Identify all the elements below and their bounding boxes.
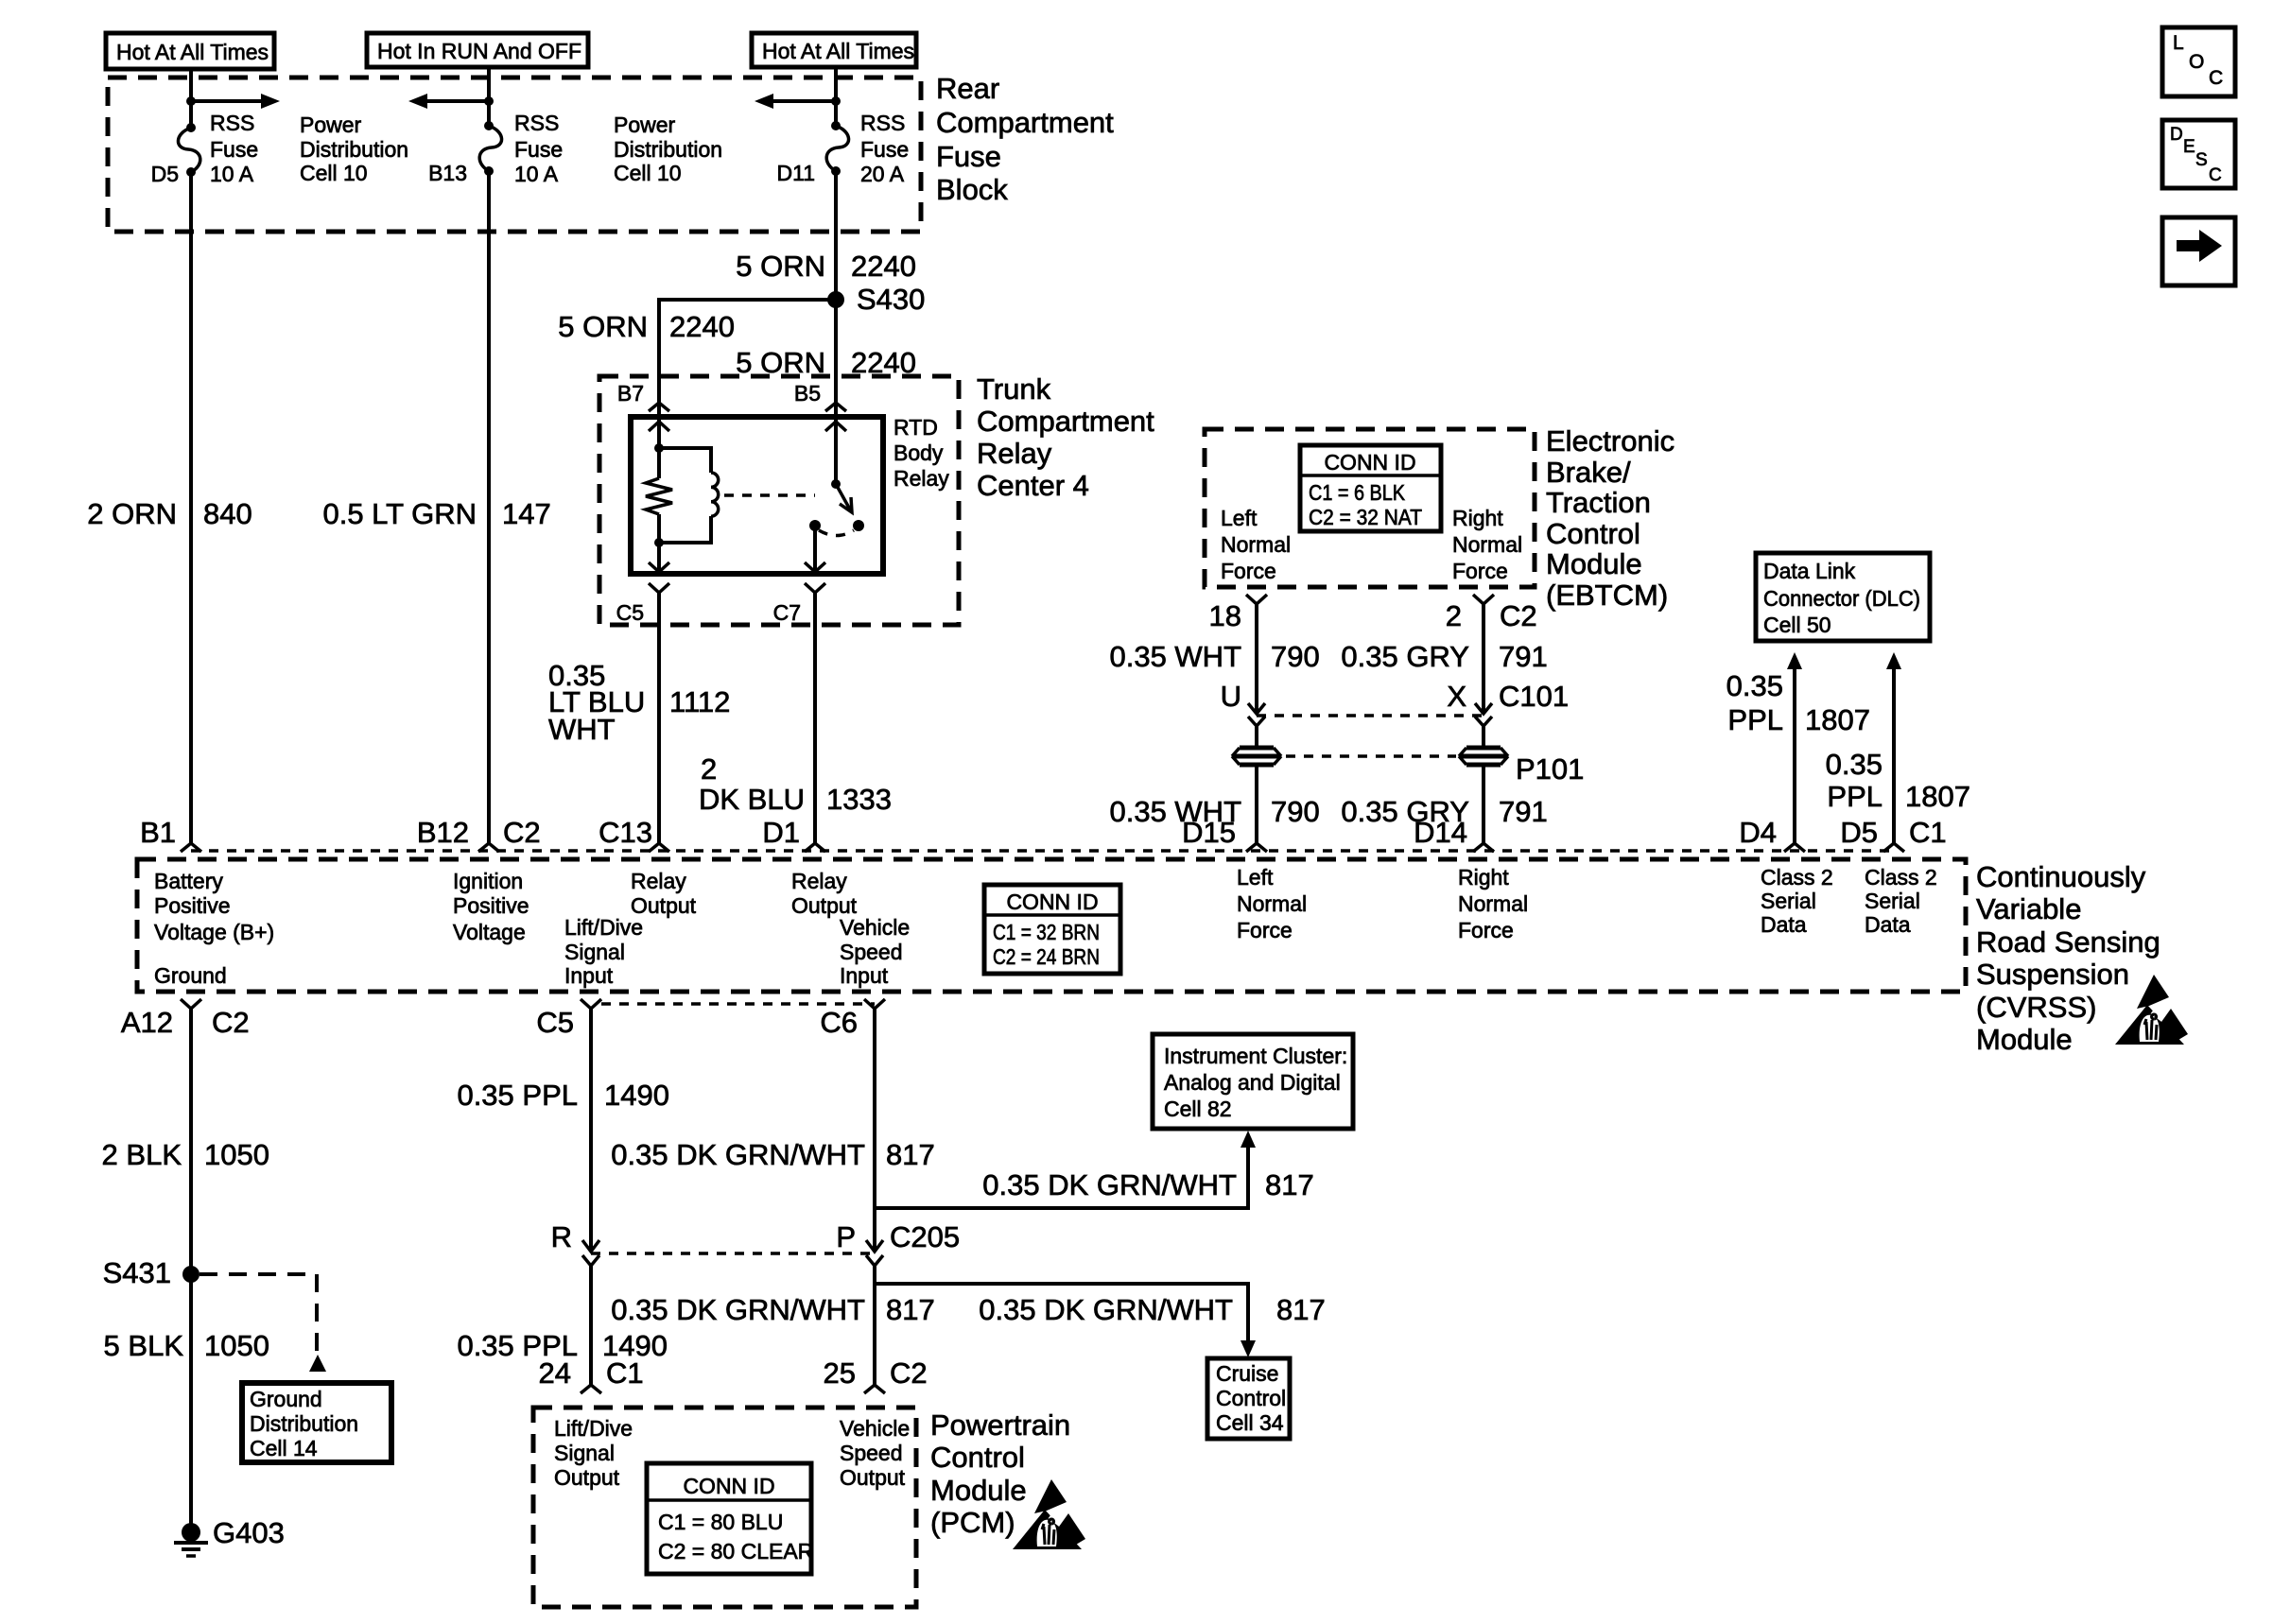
wire: 0.35 DK GRN/WHT 817 (C205 to PCM 25) bbox=[611, 1266, 934, 1385]
branch: 0.35 DK GRN/WHT 817 to Instrument Cluster bbox=[875, 1131, 1314, 1208]
PCM internal labels bbox=[554, 1416, 633, 1490]
svg-text:Fuse: Fuse bbox=[514, 137, 563, 162]
svg-text:Cruise: Cruise bbox=[1216, 1361, 1278, 1386]
svg-text:Cell 34: Cell 34 bbox=[1216, 1410, 1284, 1435]
svg-text:D11: D11 bbox=[777, 161, 816, 185]
svg-text:2 ORN: 2 ORN bbox=[87, 497, 177, 530]
svg-text:Lift/Dive: Lift/Dive bbox=[564, 915, 643, 940]
svg-text:Distribution: Distribution bbox=[250, 1411, 358, 1436]
svg-text:Force: Force bbox=[1237, 918, 1293, 942]
svg-text:Voltage: Voltage bbox=[453, 920, 526, 944]
pin B7 bbox=[617, 381, 669, 411]
svg-text:10 A: 10 A bbox=[514, 162, 559, 186]
svg-text:Voltage (B+): Voltage (B+) bbox=[154, 920, 274, 944]
svg-text:E: E bbox=[2183, 137, 2195, 157]
svg-text:C: C bbox=[2209, 165, 2222, 185]
LOC legend box bbox=[2162, 27, 2235, 96]
svg-text:D5: D5 bbox=[151, 162, 179, 186]
svg-text:(CVRSS): (CVRSS) bbox=[1976, 991, 2096, 1024]
svg-text:Output: Output bbox=[554, 1465, 620, 1490]
svg-text:G403: G403 bbox=[213, 1516, 285, 1549]
svg-text:Signal: Signal bbox=[564, 940, 625, 964]
resistor (relay suppression) bbox=[646, 448, 672, 543]
pin D5 C1 bbox=[1840, 816, 1946, 852]
svg-text:791: 791 bbox=[1499, 795, 1548, 828]
CONN ID table (EBTCM) bbox=[1300, 445, 1441, 531]
svg-text:0.35 PPL: 0.35 PPL bbox=[457, 1079, 578, 1112]
wire: 0.35 LT BLU WHT 1112 from C5 to C13 bbox=[548, 593, 730, 843]
pin 25 C2 (PCM) bbox=[824, 1356, 928, 1393]
svg-text:Vehicle: Vehicle bbox=[840, 1416, 910, 1441]
svg-text:Input: Input bbox=[564, 963, 614, 988]
svg-text:Battery: Battery bbox=[154, 869, 223, 893]
pin B5 bbox=[794, 381, 846, 411]
svg-text:0.35 GRY: 0.35 GRY bbox=[1341, 640, 1469, 673]
dashed link P101 bbox=[1286, 754, 1456, 758]
svg-text:Cell 50: Cell 50 bbox=[1763, 613, 1831, 637]
CONN ID table (PCM) bbox=[647, 1463, 813, 1574]
svg-text:C205: C205 bbox=[890, 1220, 960, 1253]
Data Link Connector box bbox=[1756, 553, 1930, 641]
wire: S430 down to B5 (5 ORN 2240) bbox=[736, 300, 916, 403]
wire: switch output to C7 exit bbox=[805, 526, 825, 572]
svg-text:1333: 1333 bbox=[826, 783, 892, 816]
pin C7 bbox=[773, 583, 825, 625]
svg-text:817: 817 bbox=[1265, 1168, 1314, 1201]
CVRSS module connector face (thin dashed) bbox=[191, 849, 1895, 853]
wire: B7 into relay coil bbox=[649, 403, 669, 448]
svg-text:Cell 14: Cell 14 bbox=[250, 1436, 318, 1460]
pin C13 bbox=[599, 816, 669, 852]
svg-text:Normal: Normal bbox=[1237, 891, 1307, 916]
svg-text:C1: C1 bbox=[606, 1356, 644, 1390]
svg-text:Center 4: Center 4 bbox=[977, 469, 1089, 502]
svg-text:Electronic: Electronic bbox=[1546, 424, 1674, 458]
svg-text:C101: C101 bbox=[1499, 680, 1569, 713]
svg-text:Hot At All Times: Hot At All Times bbox=[762, 39, 914, 63]
svg-text:0.35 DK GRN/WHT: 0.35 DK GRN/WHT bbox=[611, 1293, 865, 1326]
svg-text:C1: C1 bbox=[1909, 816, 1947, 849]
svg-text:817: 817 bbox=[1276, 1293, 1326, 1326]
pin C5 bbox=[616, 583, 669, 625]
svg-text:2: 2 bbox=[701, 752, 717, 786]
svg-text:C5: C5 bbox=[616, 600, 644, 625]
svg-text:D4: D4 bbox=[1739, 816, 1777, 849]
svg-text:1050: 1050 bbox=[204, 1138, 269, 1171]
svg-text:Output: Output bbox=[840, 1465, 906, 1490]
svg-text:Serial: Serial bbox=[1865, 889, 1920, 913]
node: B13 arrow junction bbox=[484, 96, 494, 106]
svg-text:Right: Right bbox=[1452, 506, 1503, 530]
svg-text:Class 2: Class 2 bbox=[1865, 865, 1937, 890]
svg-text:Suspension: Suspension bbox=[1976, 958, 2129, 991]
svg-text:Fuse: Fuse bbox=[860, 137, 909, 162]
svg-text:C1 = 32 BRN: C1 = 32 BRN bbox=[993, 920, 1100, 944]
wire: 0.35 PPL 1490 (C205 to PCM 24) bbox=[457, 1266, 668, 1385]
svg-text:Connector (DLC): Connector (DLC) bbox=[1763, 586, 1920, 611]
svg-text:Power: Power bbox=[300, 112, 362, 137]
svg-text:RSS: RSS bbox=[514, 111, 559, 135]
svg-text:817: 817 bbox=[886, 1293, 935, 1326]
PCM dashed box bbox=[533, 1408, 1070, 1607]
fuse RSS Fuse 20 A (D11) bbox=[777, 111, 910, 186]
svg-text:C2: C2 bbox=[890, 1356, 928, 1390]
svg-text:Hot At All Times: Hot At All Times bbox=[116, 40, 269, 64]
pin B12 C2 bbox=[417, 816, 541, 852]
svg-text:0.5 LT GRN: 0.5 LT GRN bbox=[322, 497, 477, 530]
svg-text:791: 791 bbox=[1499, 640, 1548, 673]
svg-text:Trunk: Trunk bbox=[977, 372, 1051, 406]
svg-text:C2 = 80 CLEAR: C2 = 80 CLEAR bbox=[658, 1539, 813, 1564]
svg-text:Force: Force bbox=[1458, 918, 1514, 942]
connector C101 bbox=[1221, 680, 1570, 726]
svg-text:Positive: Positive bbox=[154, 893, 231, 918]
svg-text:Brake/: Brake/ bbox=[1546, 456, 1631, 489]
ground G403 bbox=[174, 1516, 285, 1556]
svg-text:Right: Right bbox=[1458, 865, 1509, 890]
svg-text:Distribution: Distribution bbox=[614, 137, 722, 162]
wire: branch S430 to B7 (5 ORN 2240) bbox=[558, 300, 836, 403]
svg-text:RSS: RSS bbox=[210, 111, 254, 135]
svg-text:P: P bbox=[836, 1220, 856, 1253]
header box: Hot At All Times (right) bbox=[752, 33, 916, 67]
svg-text:D: D bbox=[2170, 125, 2183, 145]
Instrument Cluster box bbox=[1153, 1034, 1353, 1129]
Trunk Compartment Relay Center 4 dashed box bbox=[599, 372, 1154, 625]
svg-text:Speed: Speed bbox=[840, 940, 903, 964]
svg-text:B1: B1 bbox=[140, 816, 176, 849]
svg-text:WHT: WHT bbox=[548, 713, 616, 746]
svg-text:Left: Left bbox=[1237, 865, 1274, 890]
ESD symbol (PCM) bbox=[1013, 1479, 1089, 1549]
svg-text:Module: Module bbox=[1546, 547, 1642, 580]
svg-text:C2 = 24 BRN: C2 = 24 BRN bbox=[993, 944, 1100, 969]
svg-text:790: 790 bbox=[1271, 640, 1320, 673]
Ground Distribution Cell 14 box bbox=[242, 1383, 391, 1462]
wire: 2 ORN 840 from fuse D5 to CVRSS B1 bbox=[87, 172, 252, 843]
svg-text:X: X bbox=[1447, 680, 1466, 713]
svg-text:Cell 10: Cell 10 bbox=[614, 161, 682, 185]
connector C205 bbox=[551, 1220, 961, 1266]
arrow to Power Distribution Cell 10 (right) bbox=[191, 94, 408, 185]
wire below C101 left bbox=[1255, 726, 1258, 746]
svg-text:Control: Control bbox=[930, 1441, 1025, 1474]
svg-text:0.35 DK GRN/WHT: 0.35 DK GRN/WHT bbox=[611, 1138, 865, 1171]
svg-text:Block: Block bbox=[936, 173, 1008, 206]
node: coil top junction bbox=[654, 443, 664, 453]
svg-text:Rear: Rear bbox=[936, 72, 999, 105]
svg-text:Variable: Variable bbox=[1976, 892, 2081, 925]
svg-text:Hot In RUN And OFF: Hot In RUN And OFF bbox=[377, 39, 581, 63]
svg-text:Analog and Digital: Analog and Digital bbox=[1164, 1070, 1341, 1095]
svg-text:817: 817 bbox=[886, 1138, 935, 1171]
DESC legend box bbox=[2162, 120, 2235, 188]
pin 18 exit bbox=[1209, 595, 1267, 632]
splice S430 bbox=[827, 283, 925, 316]
svg-text:Body: Body bbox=[894, 441, 944, 465]
svg-text:C2: C2 bbox=[1500, 599, 1537, 632]
svg-text:790: 790 bbox=[1271, 795, 1320, 828]
svg-text:Fuse: Fuse bbox=[936, 140, 1001, 173]
pin 2 C2 exit bbox=[1446, 595, 1537, 632]
svg-text:DK BLU: DK BLU bbox=[699, 783, 805, 816]
svg-text:C2 = 32 NAT: C2 = 32 NAT bbox=[1309, 505, 1422, 529]
connector face C5-C6 (thin dashed) bbox=[601, 1002, 875, 1006]
svg-text:1807: 1807 bbox=[1805, 703, 1870, 736]
wire: coil to C5 exit bbox=[649, 543, 669, 572]
svg-text:Relay: Relay bbox=[977, 437, 1052, 470]
svg-text:1490: 1490 bbox=[604, 1079, 669, 1112]
wire: 0.35 WHT 790 (EBTCM to C101) bbox=[1109, 604, 1319, 713]
svg-text:Left: Left bbox=[1221, 506, 1258, 530]
svg-text:Data: Data bbox=[1865, 912, 1911, 937]
svg-text:D5: D5 bbox=[1840, 816, 1878, 849]
RTD Body Relay box bbox=[631, 415, 949, 574]
splice S431 bbox=[103, 1256, 200, 1289]
pin B1 bbox=[140, 816, 201, 852]
coil (relay winding) bbox=[659, 448, 719, 543]
svg-text:C7: C7 bbox=[773, 600, 801, 625]
svg-text:U: U bbox=[1221, 680, 1241, 713]
svg-text:Compartment: Compartment bbox=[936, 106, 1114, 139]
pin D4 bbox=[1739, 816, 1805, 852]
svg-text:R: R bbox=[551, 1220, 572, 1253]
svg-text:Ground: Ground bbox=[250, 1387, 322, 1411]
svg-text:Powertrain: Powertrain bbox=[930, 1408, 1070, 1442]
pin A12 C2 exit bbox=[121, 999, 250, 1039]
svg-text:Class 2: Class 2 bbox=[1761, 865, 1833, 890]
svg-text:Serial: Serial bbox=[1761, 889, 1816, 913]
wire: D5 feed from header into fuse block bbox=[189, 69, 193, 128]
svg-text:2240: 2240 bbox=[851, 250, 916, 283]
wire: 0.35 PPL 1807 (D4 to DLC) bbox=[1726, 652, 1870, 843]
svg-text:147: 147 bbox=[502, 497, 551, 530]
svg-text:S430: S430 bbox=[857, 283, 925, 316]
pin C5 exit bbox=[536, 999, 601, 1039]
fuse RSS Fuse 10 A (B13) bbox=[428, 111, 563, 186]
svg-text:C1 = 80 BLU: C1 = 80 BLU bbox=[658, 1510, 783, 1534]
svg-text:Compartment: Compartment bbox=[977, 405, 1154, 438]
CVRSS module dashed box bbox=[137, 859, 2160, 1056]
wire: 0.35 PPL 1490 (C5 to C205 R) bbox=[457, 1009, 669, 1251]
Cruise Control box bbox=[1207, 1358, 1290, 1439]
svg-text:O: O bbox=[2189, 51, 2204, 73]
svg-text:Force: Force bbox=[1452, 559, 1508, 583]
dashed reference to Ground Distribution Cell 14 bbox=[200, 1274, 326, 1372]
branch: 0.35 DK GRN/WHT 817 to Cruise Control bbox=[875, 1284, 1326, 1357]
svg-text:CONN ID: CONN ID bbox=[1006, 890, 1098, 914]
pin D1 bbox=[762, 816, 825, 852]
svg-text:0.35 DK GRN/WHT: 0.35 DK GRN/WHT bbox=[979, 1293, 1233, 1326]
svg-text:Power: Power bbox=[614, 112, 676, 137]
arrow to Power Distribution Cell 10 (left) bbox=[408, 94, 489, 109]
wire: 5 ORN 2240 from fuse D11 to S430 bbox=[736, 171, 916, 300]
svg-text:(EBTCM): (EBTCM) bbox=[1546, 579, 1668, 612]
svg-text:Relay: Relay bbox=[894, 466, 949, 491]
svg-text:Control: Control bbox=[1216, 1386, 1286, 1410]
wire below C101 right bbox=[1482, 726, 1485, 746]
svg-text:C2: C2 bbox=[212, 1006, 250, 1039]
svg-text:CONN ID: CONN ID bbox=[1324, 450, 1415, 475]
header box: Hot In RUN And OFF bbox=[367, 33, 588, 67]
svg-text:Road Sensing: Road Sensing bbox=[1976, 925, 2160, 959]
wire: D11 feed from header into fuse block bbox=[834, 67, 838, 126]
svg-text:RSS: RSS bbox=[860, 111, 905, 135]
svg-text:0.35: 0.35 bbox=[1826, 748, 1883, 781]
svg-text:Normal: Normal bbox=[1452, 532, 1522, 557]
wire: 0.35 GRY 791 (EBTCM to C101) bbox=[1341, 604, 1547, 713]
dashed link coil to switch bbox=[724, 493, 815, 497]
pin C6 exit bbox=[820, 999, 885, 1039]
CONN ID table (CVRSS) bbox=[984, 885, 1120, 974]
svg-text:1807: 1807 bbox=[1905, 780, 1970, 813]
label: Left Normal Force bbox=[1221, 506, 1291, 583]
svg-text:1112: 1112 bbox=[669, 685, 730, 718]
svg-text:D14: D14 bbox=[1414, 816, 1467, 849]
wire: 2 DK BLU 1333 from C7 to D1 bbox=[699, 593, 892, 843]
svg-text:5 BLK: 5 BLK bbox=[104, 1329, 184, 1362]
svg-text:Ignition: Ignition bbox=[453, 869, 523, 893]
svg-text:Relay: Relay bbox=[791, 869, 847, 893]
svg-text:L: L bbox=[2173, 32, 2184, 54]
svg-text:RTD: RTD bbox=[894, 415, 938, 440]
wire: 5 BLK 1050 (S431 to G403) bbox=[104, 1274, 269, 1529]
svg-text:Cell 10: Cell 10 bbox=[300, 161, 368, 185]
svg-text:C2: C2 bbox=[503, 816, 541, 849]
pin 24 C1 (PCM) bbox=[539, 1356, 644, 1393]
CVRSS internal labels bbox=[154, 869, 274, 988]
svg-text:Speed: Speed bbox=[840, 1441, 903, 1465]
svg-text:Distribution: Distribution bbox=[300, 137, 408, 162]
svg-text:D1: D1 bbox=[762, 816, 800, 849]
header box: Hot At All Times (left) bbox=[106, 33, 274, 69]
node: coil bottom junction bbox=[654, 538, 664, 547]
label: Right Normal Force bbox=[1452, 506, 1522, 583]
pin D15 bbox=[1182, 816, 1267, 852]
wire: B13 feed from header into fuse block bbox=[487, 67, 491, 126]
svg-text:2 BLK: 2 BLK bbox=[102, 1138, 182, 1171]
svg-text:S: S bbox=[2195, 150, 2208, 170]
svg-text:20 A: 20 A bbox=[860, 162, 905, 186]
svg-text:S431: S431 bbox=[103, 1256, 171, 1289]
wire: 0.35 DK GRN/WHT 817 (C6 to C205 P) bbox=[611, 1009, 934, 1251]
svg-text:B5: B5 bbox=[794, 381, 821, 406]
Rear Compartment Fuse Block dashed box bbox=[108, 72, 1114, 232]
grommet P101 left bbox=[1232, 748, 1281, 765]
svg-text:2240: 2240 bbox=[669, 310, 735, 343]
svg-text:Fuse: Fuse bbox=[210, 137, 258, 162]
svg-text:Ground: Ground bbox=[154, 963, 227, 988]
svg-text:840: 840 bbox=[203, 497, 252, 530]
svg-text:25: 25 bbox=[824, 1356, 856, 1390]
wire: 0.35 GRY 791 (P101 to D14) bbox=[1341, 764, 1547, 843]
svg-text:5 ORN: 5 ORN bbox=[736, 250, 825, 283]
wire: 2 BLK 1050 (A12 to S431) bbox=[102, 1009, 269, 1274]
svg-text:5 ORN: 5 ORN bbox=[558, 310, 648, 343]
svg-text:Input: Input bbox=[840, 963, 889, 988]
svg-text:Module: Module bbox=[1976, 1023, 2073, 1056]
arrow legend box bbox=[2162, 217, 2235, 285]
fuse RSS Fuse 10 A (D5) bbox=[151, 111, 259, 186]
svg-text:B12: B12 bbox=[417, 816, 469, 849]
svg-text:Vehicle: Vehicle bbox=[840, 915, 910, 940]
svg-text:CONN ID: CONN ID bbox=[683, 1474, 774, 1498]
wire: 0.35 WHT 790 (P101 to D15) bbox=[1109, 764, 1319, 843]
svg-text:Module: Module bbox=[930, 1474, 1027, 1507]
svg-text:C6: C6 bbox=[820, 1006, 858, 1039]
svg-text:PPL: PPL bbox=[1727, 703, 1783, 736]
grommet P101 right bbox=[1459, 748, 1584, 786]
svg-text:0.35: 0.35 bbox=[1726, 669, 1783, 702]
svg-text:Lift/Dive: Lift/Dive bbox=[554, 1416, 633, 1441]
wire: 0.5 LT GRN 147 from fuse B13 to CVRSS B12 bbox=[322, 171, 550, 843]
svg-text:C5: C5 bbox=[536, 1006, 574, 1039]
svg-text:Data: Data bbox=[1761, 912, 1807, 937]
svg-text:Signal: Signal bbox=[554, 1441, 615, 1465]
svg-text:Data Link: Data Link bbox=[1763, 559, 1856, 583]
svg-text:C: C bbox=[2209, 67, 2223, 89]
svg-text:B13: B13 bbox=[428, 161, 467, 185]
svg-text:0.35 WHT: 0.35 WHT bbox=[1109, 640, 1241, 673]
svg-text:Instrument Cluster:: Instrument Cluster: bbox=[1164, 1044, 1347, 1068]
ESD symbol (CVRSS) bbox=[2115, 975, 2192, 1045]
svg-text:Normal: Normal bbox=[1458, 891, 1528, 916]
pin D14 bbox=[1414, 816, 1494, 852]
EBTCM dashed box bbox=[1205, 424, 1674, 612]
svg-text:Relay: Relay bbox=[631, 869, 686, 893]
node: D11 arrow junction bbox=[831, 96, 841, 106]
svg-text:0.35 DK GRN/WHT: 0.35 DK GRN/WHT bbox=[982, 1168, 1237, 1201]
svg-text:Cell 82: Cell 82 bbox=[1164, 1097, 1232, 1121]
svg-text:Traction: Traction bbox=[1546, 486, 1651, 519]
svg-text:Continuously: Continuously bbox=[1976, 860, 2146, 893]
svg-text:Normal: Normal bbox=[1221, 532, 1291, 557]
svg-text:P101: P101 bbox=[1516, 752, 1584, 786]
svg-text:18: 18 bbox=[1209, 599, 1241, 632]
svg-text:PPL: PPL bbox=[1827, 780, 1883, 813]
svg-text:Control: Control bbox=[1546, 517, 1640, 550]
svg-text:24: 24 bbox=[539, 1356, 571, 1390]
svg-text:C1 = 6 BLK: C1 = 6 BLK bbox=[1309, 480, 1406, 505]
wire: 0.35 PPL 1807 (D5 C1 to DLC) bbox=[1826, 652, 1970, 843]
svg-text:Force: Force bbox=[1221, 559, 1276, 583]
svg-text:2: 2 bbox=[1446, 599, 1462, 632]
svg-text:C13: C13 bbox=[599, 816, 652, 849]
svg-text:1050: 1050 bbox=[204, 1329, 269, 1362]
svg-text:10 A: 10 A bbox=[210, 162, 254, 186]
svg-text:Positive: Positive bbox=[453, 893, 529, 918]
relay switch bbox=[809, 403, 864, 536]
svg-text:A12: A12 bbox=[121, 1006, 173, 1039]
svg-text:B7: B7 bbox=[617, 381, 644, 406]
svg-text:D15: D15 bbox=[1182, 816, 1236, 849]
node: D5 arrow junction bbox=[186, 96, 196, 106]
svg-text:(PCM): (PCM) bbox=[930, 1506, 1015, 1539]
arrow to Power Distribution Cell 10 (left) bbox=[614, 94, 836, 185]
